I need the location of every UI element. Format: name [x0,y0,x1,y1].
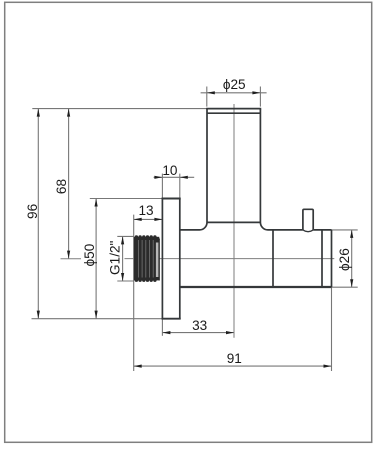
pipe left edge + left fillet + body top-left [180,109,207,230]
flange right edge [179,199,181,319]
flange top [162,197,181,199]
arrow G1/2 bottom [121,273,124,281]
wire d26 top extension [332,229,358,231]
arrow G1/2 top [121,236,124,244]
dimension line d50 [95,199,97,319]
svg-text:91: 91 [227,351,242,366]
dimension line G1/2 [122,236,124,281]
arrow 33 left [162,331,170,334]
wire flange bottom extension [32,318,163,320]
dimension line d25 [201,92,267,94]
thread block [134,235,160,282]
arrow d26 top [350,230,353,238]
step line at pipe base [207,221,260,223]
wire 10 left extension above flange [161,174,163,199]
arrow 68 top [67,109,70,117]
svg-text:10: 10 [162,163,178,178]
svg-text:ϕ50: ϕ50 [82,243,97,266]
centerline tick at 68 dim [61,258,82,260]
arrow d25 left [207,91,215,94]
dimension line 10 with tails [154,176,195,178]
wire 91 right extension [331,287,333,371]
wire d25 right extension [259,87,261,107]
svg-text:96: 96 [25,204,40,219]
svg-text:ϕ26: ϕ26 [337,248,352,271]
arrow 91 left [134,365,142,368]
horizontal centerline [125,258,335,260]
dimension line 91 [134,365,332,367]
svg-text:13: 13 [138,203,153,218]
wire flange top extension [90,198,163,200]
thread right edge line [158,239,160,281]
wire G1/2 bottom extension [117,280,133,282]
pipe top line [206,108,261,110]
dimension line d26 [351,230,353,287]
arrow 13 right [154,218,162,221]
wire d25 left extension [206,87,208,107]
wire G1/2 top extension [117,235,133,237]
wire 10 right extension above flange [179,174,181,199]
arrow d25 right [252,91,260,94]
dimension texts [25,77,352,366]
dimension line 68 [68,109,70,259]
arrow 33 right [226,331,234,334]
svg-text:33: 33 [192,318,207,333]
dimension line 13 [134,218,163,220]
arrow 13 left [134,218,142,221]
arrow 91 right [324,365,332,368]
thread right light column [156,243,159,278]
pipe right edge + right fillet + body top-right [260,109,303,230]
arrow 68 bottom [67,251,70,259]
arrow d50 top [95,199,98,207]
stem outline [303,209,313,230]
body bottom [180,286,332,288]
arrowheads [37,91,354,368]
internal vertical line [272,230,274,287]
arrow 10 right (outside pointing left) [180,176,188,179]
thread body [134,237,159,281]
dimension line 33 [162,332,234,334]
thread light gaps [138,240,153,278]
vertical centerline [233,104,235,338]
flange bottom [162,318,181,320]
wire thread-left vertical extension [133,215,135,371]
cap right edge [331,230,333,287]
svg-text:G1/2": G1/2" [108,240,123,274]
arrow d26 bottom [350,279,353,287]
wire 33 left extension below flange [161,319,163,336]
thin extension / dimension lines [32,87,358,372]
svg-text:68: 68 [54,179,69,194]
thread crest bumps top [135,235,160,282]
stem base arc [303,230,313,232]
cap left edge [321,230,323,287]
wire top extension line (pipe top to left) [32,108,207,110]
arrow 10 left (outside pointing right) [154,176,162,179]
arrow 96 top [37,109,40,117]
pipe second top line [207,112,260,114]
flange left edge [161,199,163,319]
dimension line 96 [37,109,39,319]
svg-text:ϕ25: ϕ25 [223,77,246,92]
wire d26 bottom extension [332,286,358,288]
body top right of stem to cap [313,229,331,231]
centerlines [61,104,335,338]
arrow 96 bottom [37,311,40,319]
valve body dark outline [162,109,332,319]
arrow d50 bottom [95,311,98,319]
